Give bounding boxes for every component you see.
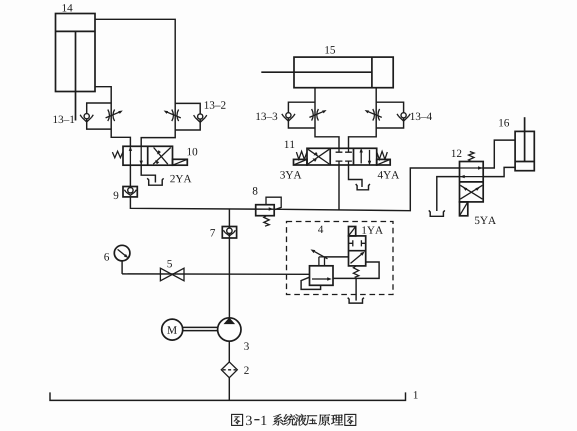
wire valve 12 to cyl16 top: [483, 140, 515, 168]
wire valve 11 P down: [338, 165, 340, 210]
sequence valve 8 spring: [264, 216, 269, 227]
check valve of 13-1: [82, 117, 92, 122]
valve 10 spring: [112, 151, 123, 157]
valve 12 crossed position: [460, 185, 482, 199]
coupling: [182, 327, 218, 330]
valve 11 parallel position: [360, 150, 362, 163]
reducing valve arrow: [312, 278, 328, 280]
label 2: [244, 366, 248, 373]
cylinder 15: [294, 57, 393, 88]
label 13-4: [411, 113, 432, 121]
caption glyph li: [331, 414, 343, 425]
caption 图 (first): [232, 414, 243, 425]
wire pump suction: [228, 341, 230, 362]
label 16: [499, 119, 509, 127]
wire cyl15 right port to 13-4: [349, 88, 377, 149]
wire valve 10 P down: [129, 165, 131, 186]
valve 12 body: [460, 162, 484, 202]
caption 压 (hand-drawn): [307, 416, 318, 425]
wire pilot to 1YA valve: [325, 256, 349, 258]
wire main pressure line: [130, 168, 459, 211]
caption glyph tong: [284, 414, 296, 426]
label M: [167, 326, 176, 333]
solenoid 3YA of valve 11: [294, 159, 308, 165]
throttle of 13-4: [373, 109, 375, 121]
label 3YA: [280, 171, 301, 179]
reducing valve adjust arrow: [315, 252, 328, 259]
valve 11 crossed position: [308, 149, 329, 164]
caption glyph yuan: [319, 414, 331, 426]
valve 12 spring: [469, 152, 474, 162]
throttle-check valve 13-4 loop: [376, 102, 403, 128]
wire cyl14 bottom port to 13-1: [95, 87, 130, 147]
solenoid 4YA of valve 11: [377, 159, 391, 165]
valve 12 upper position arrows: [460, 167, 484, 169]
valve 11 closed centre position: [336, 148, 352, 165]
throttle-check valve 13-2 loop: [175, 103, 200, 130]
drain tank of valve 10: [147, 178, 163, 185]
caption glyph xi: [273, 414, 284, 426]
reducing valve drain loop: [301, 277, 321, 289]
check valve 7: [222, 227, 236, 239]
motor M: [162, 319, 183, 340]
wire filter to tank: [228, 378, 230, 401]
pilot valve 1YA body: [349, 236, 366, 266]
caption 3-1: [246, 416, 252, 425]
label 5YA: [475, 217, 496, 225]
throttle-check valve 13-3 loop: [288, 102, 315, 128]
sequence valve 8 arrow: [269, 207, 274, 210]
label 11: [285, 141, 295, 148]
throttle of 13-2: [172, 110, 174, 122]
label 2YA: [170, 175, 191, 182]
solenoid 2YA of valve 10: [173, 159, 188, 165]
label 13-2: [205, 101, 226, 109]
label 7: [211, 229, 216, 236]
label 3: [244, 342, 249, 350]
pilot valve 1YA spring: [353, 266, 358, 278]
drain tank of box 4: [348, 298, 364, 304]
label 15: [325, 46, 335, 54]
caption 图 (second): [345, 414, 356, 425]
valve 11 left spring: [296, 151, 307, 159]
label 5: [167, 260, 172, 267]
sequence valve 8 pilot line: [266, 197, 281, 210]
check valve 9: [123, 187, 137, 197]
valve 11 right spring: [377, 151, 388, 159]
label 1: [414, 391, 418, 398]
label 14: [62, 4, 72, 11]
label 12: [452, 150, 462, 157]
pilot valve 1YA closed position: [349, 240, 366, 246]
label 6: [104, 253, 109, 261]
wire box 4 drain: [355, 278, 357, 300]
label 9: [114, 192, 119, 200]
check valve of 13-2: [195, 118, 205, 123]
valve 10 crossed position: [154, 148, 168, 165]
check valve of 13-4: [399, 116, 409, 121]
dashed enclosure 4: [287, 222, 394, 295]
pump 3: [218, 318, 241, 341]
valve 10 left position arrows: [129, 146, 131, 165]
valve 11 body: [307, 148, 377, 165]
label 8: [253, 187, 258, 195]
wire valve 12 left to tank: [437, 177, 460, 211]
pressure gauge 6: [114, 245, 130, 261]
label 4YA: [378, 171, 399, 178]
label 13-1: [53, 116, 74, 124]
reducing valve main body: [310, 266, 334, 286]
filter 2: [221, 362, 237, 378]
pilot valve 1YA throttle position: [351, 254, 362, 263]
check valve of 13-3: [284, 116, 294, 121]
label 13-3: [256, 113, 277, 121]
cylinder 16: [515, 131, 534, 170]
wire gauge line to reducing valve: [122, 273, 309, 275]
solenoid 5YA of valve 12: [460, 202, 468, 216]
valve 10 body: [123, 146, 173, 165]
drain tank of valve 12: [429, 210, 445, 216]
wire cyl14 top port to 13-2: [95, 19, 175, 146]
drain tank of valve 11: [356, 184, 370, 190]
wire reducing valve outlet: [333, 262, 379, 278]
label 10: [187, 148, 197, 156]
reducing valve pilot stub: [319, 257, 325, 266]
sequence valve 8 body: [256, 205, 275, 216]
shut-off valve 5: [160, 268, 184, 281]
throttle of 13-1: [108, 110, 110, 122]
solenoid 1YA: [349, 227, 356, 236]
label 1YA: [362, 226, 383, 233]
wire cyl15 left port to 13-3: [315, 88, 339, 149]
caption glyph ye: [295, 414, 307, 426]
label 4: [318, 226, 323, 233]
cylinder 14: [56, 14, 96, 92]
throttle of 13-3: [312, 109, 314, 121]
wire valve 11 T to drain: [349, 165, 363, 187]
wire valve 12 to cyl16 bottom: [483, 167, 515, 176]
throttle-check valve 13-1 loop: [87, 103, 112, 129]
wire valve 10 T to drain: [141, 165, 155, 182]
wire pump riser: [228, 209, 230, 318]
tank line 1: [50, 392, 406, 400]
